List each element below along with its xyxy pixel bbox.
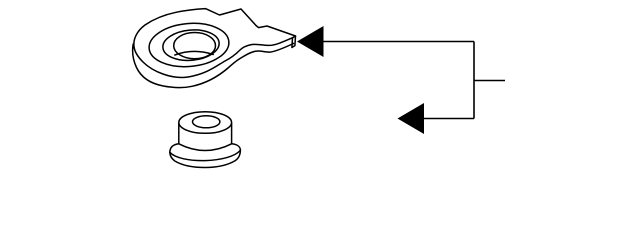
grommet body right side bbox=[231, 124, 233, 144]
grommet flange equator curve bbox=[170, 150, 241, 160]
washer hole depth arc bbox=[175, 51, 213, 55]
washer hole ellipse bbox=[174, 33, 216, 59]
leader tick bbox=[474, 80, 505, 82]
callout arrow 2 bbox=[398, 103, 425, 134]
grommet body left side bbox=[178, 124, 180, 144]
grommet hole ellipse bbox=[193, 116, 220, 128]
grommet top ellipse bbox=[179, 112, 232, 134]
washer end face bbox=[292, 36, 296, 48]
callout arrow 1 bbox=[297, 26, 324, 57]
leader line 2 horizontal bbox=[424, 118, 474, 120]
washer recess ellipse bbox=[162, 28, 221, 63]
grommet flange silhouette bbox=[170, 144, 241, 168]
washer boss outer ellipse bbox=[147, 20, 230, 70]
leader line 1 horizontal bbox=[321, 41, 474, 43]
washer side wall bottom edge bbox=[133, 43, 294, 87]
washer plate top face outline bbox=[134, 9, 296, 78]
leader line vertical bbox=[473, 42, 475, 119]
grommet fillet front curve bbox=[179, 144, 232, 151]
